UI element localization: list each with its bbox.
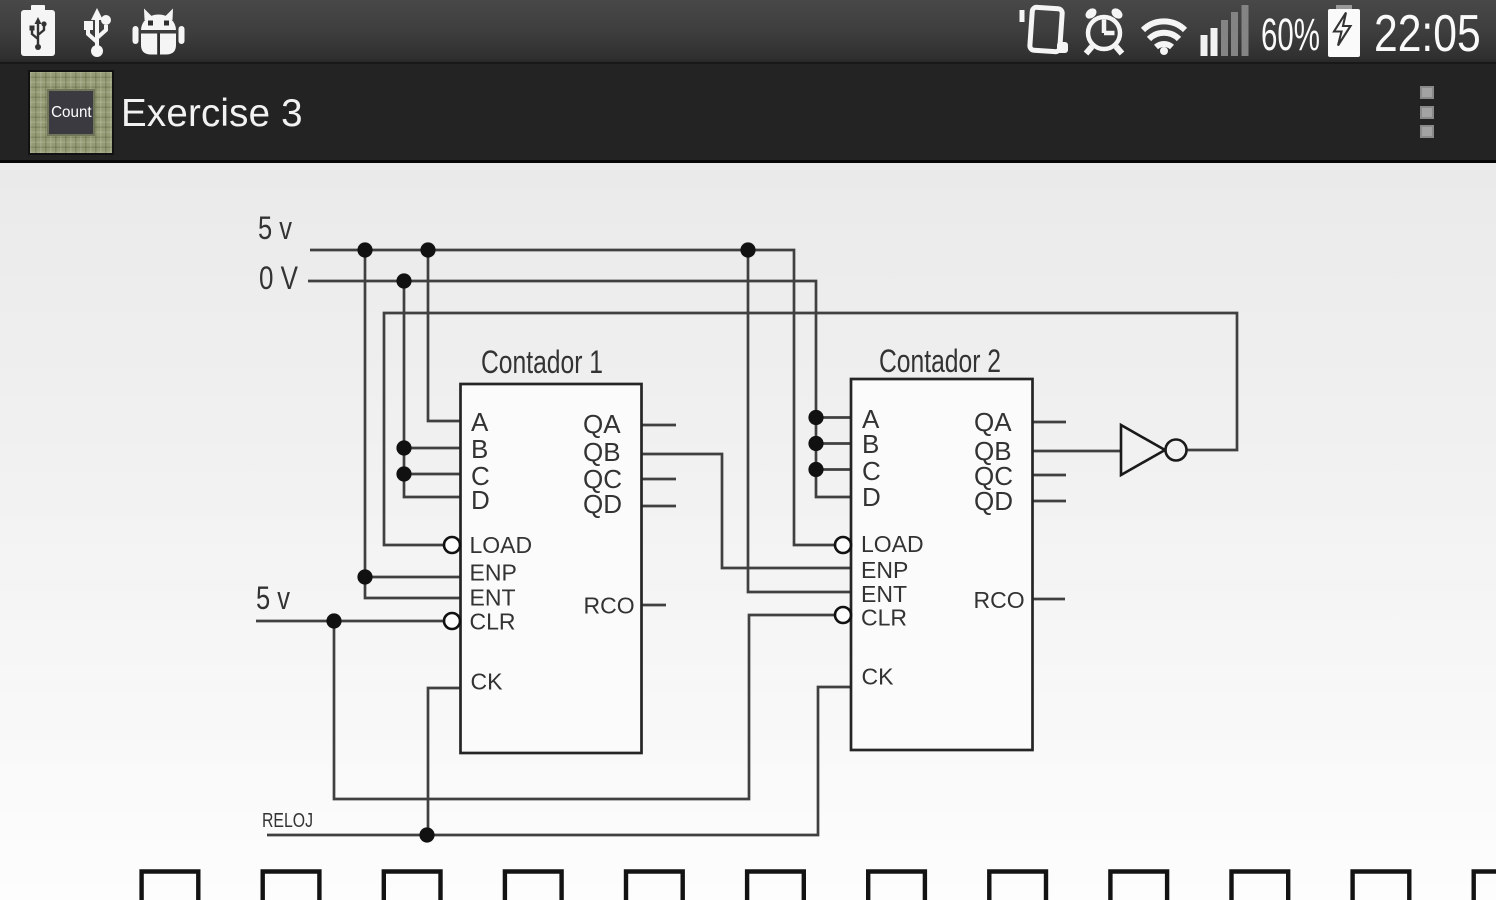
svg-text:Contador 1: Contador 1 — [481, 344, 603, 380]
svg-text:CLR: CLR — [861, 605, 907, 631]
svg-text:CK: CK — [862, 664, 895, 690]
svg-text:0 V: 0 V — [259, 260, 299, 296]
svg-text:B: B — [471, 434, 488, 464]
svg-text:D: D — [862, 482, 881, 512]
svg-text:RELOJ: RELOJ — [262, 810, 313, 832]
svg-text:B: B — [862, 429, 879, 459]
svg-text:5 v: 5 v — [256, 580, 290, 616]
svg-text:QA: QA — [583, 409, 621, 439]
svg-text:A: A — [471, 407, 489, 437]
svg-text:ENT: ENT — [470, 585, 516, 611]
svg-text:D: D — [471, 485, 490, 515]
svg-text:5 v: 5 v — [258, 210, 292, 246]
svg-text:ENP: ENP — [861, 557, 908, 583]
svg-text:LOAD: LOAD — [861, 531, 924, 557]
svg-text:LOAD: LOAD — [470, 532, 533, 558]
svg-text:QD: QD — [974, 486, 1013, 516]
svg-text:RCO: RCO — [584, 593, 635, 619]
svg-text:ENP: ENP — [470, 560, 517, 586]
svg-text:ENT: ENT — [861, 581, 907, 607]
svg-text:QB: QB — [583, 437, 621, 467]
svg-text:RCO: RCO — [974, 587, 1025, 613]
svg-text:QD: QD — [583, 489, 622, 519]
svg-text:Contador 2: Contador 2 — [879, 343, 1001, 379]
svg-text:CLR: CLR — [470, 609, 516, 635]
svg-text:CK: CK — [471, 669, 504, 695]
svg-text:QA: QA — [974, 407, 1012, 437]
